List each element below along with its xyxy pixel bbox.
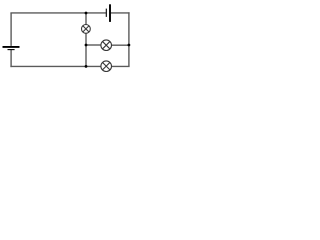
- lamp L3 (circle with X): [101, 61, 112, 72]
- wire: right rail: [128, 12, 130, 66]
- wire: top wire left of cell: [10, 12, 106, 14]
- battery cell B2 (top wire): long thick plate: [109, 4, 111, 22]
- node: junction dot branch / right rail: [127, 44, 130, 47]
- wire: bottom wire right of lamp L3: [111, 65, 129, 67]
- battery cell B1 (left rail): long thick plate: [3, 46, 20, 48]
- node: junction dot top wire / middle wire: [85, 12, 88, 15]
- wire: parallel branch right (lamp L2 to right rail): [111, 44, 129, 46]
- wire: left rail upper segment: [10, 13, 12, 46]
- wire: bottom wire left of lamp L3: [10, 65, 101, 67]
- battery cell B2 (top wire): short thin plate: [105, 9, 107, 17]
- node: junction dot middle wire / bottom wire: [85, 65, 88, 68]
- wire: middle vertical upper (node to lamp L1): [85, 13, 87, 25]
- node: junction dot middle wire / branch: [85, 44, 88, 47]
- lamp L1 (circle with X): [82, 25, 91, 34]
- wire: left rail lower segment: [10, 50, 12, 67]
- battery cell B1 (left rail): short thin plate: [8, 49, 15, 51]
- wire: middle vertical lower (lamp L1 to bottom wire): [85, 33, 87, 66]
- lamp L2 (circle with X): [101, 40, 112, 51]
- wire: top wire right of cell: [111, 12, 130, 14]
- wire: parallel branch left (node to lamp L2): [86, 44, 101, 46]
